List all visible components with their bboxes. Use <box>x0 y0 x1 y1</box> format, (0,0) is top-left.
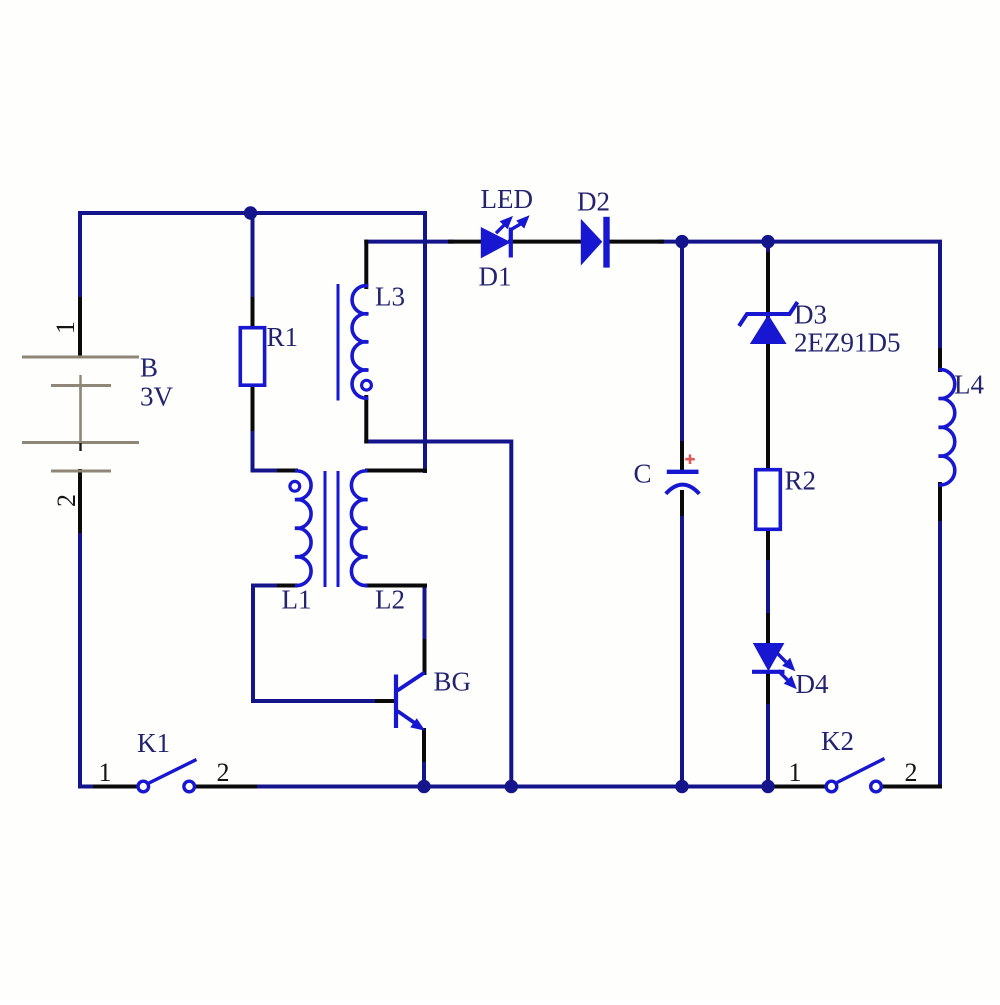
battery small black tick <box>79 443 81 451</box>
capacitor C top plate <box>667 470 699 474</box>
wire bottom rail left of K1 <box>95 785 138 789</box>
svg-text:D3: D3 <box>794 300 827 330</box>
pin battery negative lead <box>78 471 82 531</box>
pin D2 cathode lead <box>608 240 662 244</box>
transformer core line right <box>337 471 340 587</box>
svg-text:K1: K1 <box>137 728 170 758</box>
wire capacitor C branch upper <box>680 242 684 445</box>
svg-text:1: 1 <box>789 758 802 787</box>
pin collector lead <box>423 641 427 673</box>
junction node D2 out <box>675 235 688 248</box>
svg-text:1: 1 <box>51 321 80 334</box>
wire D1 cathode to D2 anode <box>510 240 582 244</box>
svg-text:L3: L3 <box>375 282 405 312</box>
transformer core line L3 <box>337 284 340 401</box>
L3 phasing dot <box>362 380 372 390</box>
diode D2 triangle <box>581 219 603 266</box>
switch K2 contact 2 <box>871 781 882 792</box>
inductor L3 winding <box>352 286 368 399</box>
svg-text:K2: K2 <box>821 726 854 756</box>
transistor BG collector stroke <box>398 673 425 691</box>
pin battery positive lead <box>78 299 82 356</box>
LED D4 arrow 1 <box>778 654 796 672</box>
pin L3 bottom lead <box>364 397 368 442</box>
wire R1 top from rail <box>251 213 255 301</box>
wire top rail from battery to corner, down to L2 top <box>80 213 425 471</box>
wire D4 cathode to bottom rail <box>766 700 770 787</box>
svg-text:D2: D2 <box>577 187 610 217</box>
pin R1 bottom <box>251 385 255 429</box>
junction node C rail <box>675 780 688 793</box>
transistor BG base bar <box>394 675 398 729</box>
svg-text:2: 2 <box>905 758 918 787</box>
capacitor plus sign <box>685 454 695 464</box>
pin L2 top <box>367 469 425 473</box>
svg-text:L2: L2 <box>375 585 405 615</box>
switch K1 contact 2 <box>184 781 195 792</box>
diode D2 cathode bar <box>603 217 609 268</box>
LED D4 cathode bar <box>752 670 785 674</box>
pin L1 bottom <box>279 584 296 588</box>
junction node emitter rail <box>417 780 430 793</box>
svg-text:3V: 3V <box>140 382 174 412</box>
LED D1 arrow 1 <box>496 216 513 233</box>
wire R2 to D4 <box>766 556 770 617</box>
wire L4 bottom to rail corner <box>934 517 940 787</box>
svg-text:R2: R2 <box>785 466 817 496</box>
wire L1 bottom to transistor base <box>253 586 379 702</box>
wire bottom rail node to K2 <box>775 785 826 789</box>
wire L3 bottom to bottom rail <box>366 442 511 787</box>
LED D4 arrow 2 <box>778 671 797 690</box>
inductor L2 winding <box>351 471 367 586</box>
pin L1 top <box>279 469 296 473</box>
pin base lead <box>377 699 394 703</box>
svg-text:2: 2 <box>217 758 230 787</box>
svg-text:B: B <box>140 353 158 383</box>
pin C bottom lead <box>680 492 684 514</box>
pin R2 bottom lead <box>766 529 770 558</box>
L1 phasing dot <box>290 481 300 491</box>
transistor BG emitter stroke with arrow <box>398 711 426 731</box>
pin emitter lead <box>422 730 426 760</box>
junction node D3 top <box>761 235 774 248</box>
wire L2 bottom to collector <box>423 586 427 644</box>
wire node D2 cathode across top right to L4 <box>660 242 940 352</box>
switch K1 contact 1 <box>138 781 149 792</box>
svg-text:D4: D4 <box>796 669 829 699</box>
pin L2 bottom <box>367 584 425 588</box>
switch K2 lever <box>837 759 885 783</box>
svg-text:BG: BG <box>434 667 472 697</box>
wire bottom rail middle <box>253 785 777 789</box>
resistor R1 <box>240 328 264 386</box>
svg-text:2: 2 <box>52 494 81 507</box>
LED D1 arrow 2 <box>511 215 530 230</box>
svg-text:LED: LED <box>481 184 533 214</box>
zener D3 triangle <box>750 315 787 345</box>
svg-text:1: 1 <box>99 758 112 787</box>
svg-text:L1: L1 <box>282 585 312 615</box>
LED D1 cathode bar <box>509 228 513 258</box>
pin D1 anode lead <box>450 240 482 244</box>
switch K2 contact 1 <box>826 781 837 792</box>
wire D3 branch top stub <box>766 242 770 256</box>
wire capacitor C branch lower <box>680 512 684 787</box>
svg-text:2EZ91D5: 2EZ91D5 <box>794 328 900 358</box>
transformer core line left <box>324 471 327 587</box>
pin D4 anode lead <box>766 615 770 644</box>
inductor L4 winding <box>939 370 955 485</box>
wire L3 top to LED D1 anode <box>366 240 452 244</box>
pin R1 top <box>251 299 255 328</box>
wire bottom rail K1 to node <box>195 785 256 789</box>
capacitor C curved plate <box>666 485 700 494</box>
resistor R2 <box>756 470 781 530</box>
junction node L3 rail <box>505 780 518 793</box>
inductor L1 winding <box>295 471 311 586</box>
pin L4 top lead <box>938 350 942 370</box>
pin C top lead <box>680 443 684 470</box>
switch K1 lever <box>149 760 197 784</box>
svg-text:L4: L4 <box>954 370 984 400</box>
wire emitter to bottom rail <box>422 758 426 787</box>
svg-text:C: C <box>634 459 652 489</box>
wire R1 bottom to L1 top <box>253 427 282 471</box>
pin L3 top lead <box>364 242 368 287</box>
pin D4 cathode lead <box>766 672 770 702</box>
junction node D4 rail <box>761 780 774 793</box>
LED D1 triangle <box>481 227 511 258</box>
pin L4 bottom lead <box>938 484 942 519</box>
battery B plates <box>22 357 139 471</box>
svg-text:D1: D1 <box>479 262 512 292</box>
wire battery bottom to rail corner <box>80 529 97 787</box>
pin D3 leads through zener <box>766 254 770 471</box>
junction node top rail <box>244 206 257 219</box>
wire bottom rail K2 to L4 corner <box>881 785 940 789</box>
LED D4 triangle <box>753 643 785 671</box>
svg-text:R1: R1 <box>267 322 299 352</box>
zener D3 bar with bent ends <box>739 302 798 326</box>
